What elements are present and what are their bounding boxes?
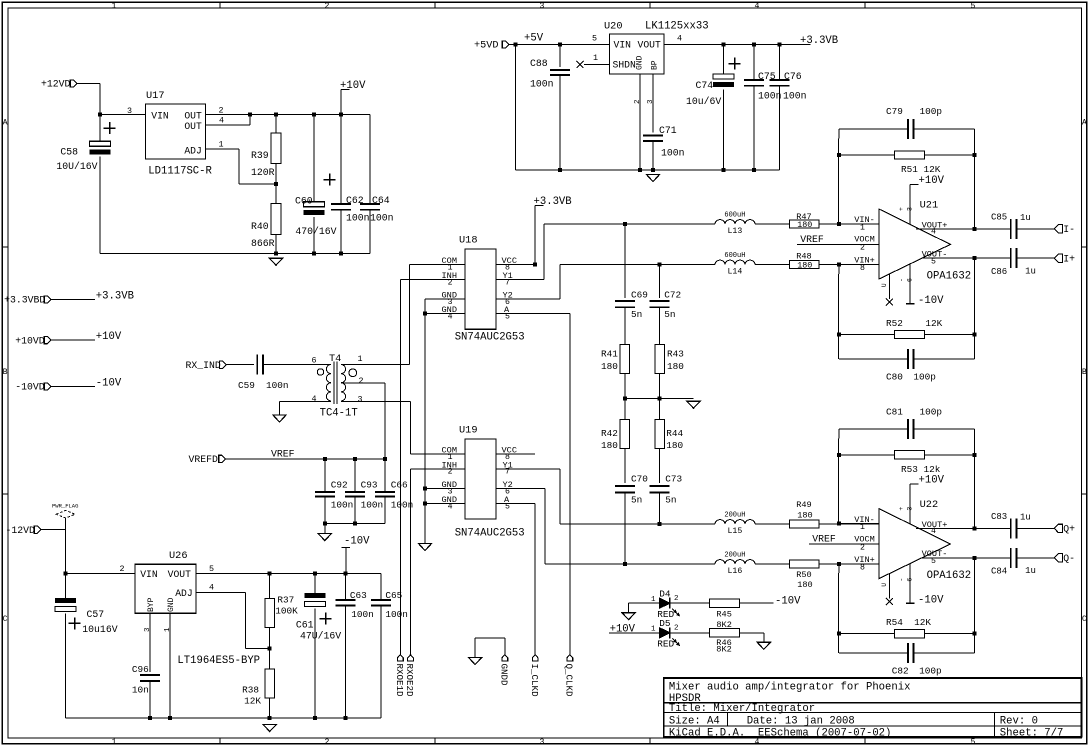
- svg-text:Q-: Q-: [1063, 553, 1075, 564]
- svg-text:C59: C59: [238, 380, 255, 391]
- svg-text:C79: C79: [886, 106, 903, 117]
- svg-text:SN74AUC2G53: SN74AUC2G53: [455, 332, 525, 344]
- svg-text:U22: U22: [920, 499, 939, 511]
- svg-text:1: 1: [164, 627, 172, 632]
- svg-text:GND: GND: [636, 55, 645, 70]
- svg-text:-10V: -10V: [918, 595, 944, 607]
- svg-text:3: 3: [907, 207, 914, 211]
- svg-text:GND: GND: [167, 597, 176, 612]
- svg-text:1: 1: [593, 53, 598, 63]
- svg-text:1: 1: [860, 223, 865, 232]
- svg-text:R45: R45: [716, 609, 731, 619]
- svg-text:-10V: -10V: [918, 295, 944, 307]
- svg-text:U19: U19: [459, 425, 478, 437]
- svg-text:U: U: [881, 283, 888, 287]
- svg-text:C61: C61: [296, 620, 314, 631]
- svg-text:4: 4: [312, 394, 317, 404]
- svg-text:2: 2: [325, 2, 330, 11]
- svg-text:200uH: 200uH: [724, 552, 745, 560]
- svg-text:+3.3VB: +3.3VB: [800, 35, 838, 47]
- svg-text:12K: 12K: [244, 695, 261, 706]
- svg-text:RXOE1D: RXOE1D: [394, 664, 405, 698]
- svg-text:100p: 100p: [920, 406, 943, 417]
- svg-text:KiCad E.D.A. EESchema (2007-0: KiCad E.D.A. EESchema (2007-07-02): [669, 727, 892, 739]
- svg-text:5: 5: [209, 564, 214, 574]
- svg-text:C57: C57: [87, 609, 105, 620]
- svg-text:C64: C64: [372, 195, 390, 206]
- svg-text:D5: D5: [659, 618, 671, 629]
- svg-text:R42: R42: [601, 428, 618, 439]
- svg-text:R39: R39: [251, 150, 269, 161]
- svg-text:T4: T4: [329, 353, 341, 365]
- svg-text:180: 180: [601, 361, 618, 372]
- svg-text:Date: 13 jan 2008: Date: 13 jan 2008: [747, 715, 855, 727]
- svg-text:VREFD: VREFD: [189, 454, 219, 465]
- svg-text:LD1117SC-R: LD1117SC-R: [148, 165, 212, 177]
- svg-text:+10V: +10V: [610, 623, 636, 635]
- svg-text:L13: L13: [728, 227, 743, 236]
- svg-text:5n: 5n: [631, 495, 642, 506]
- svg-text:5: 5: [505, 502, 510, 511]
- svg-text:2: 2: [120, 564, 125, 574]
- svg-text:6: 6: [907, 278, 914, 282]
- svg-text:2: 2: [359, 376, 364, 386]
- svg-text:1: 1: [651, 596, 656, 604]
- svg-text:C92: C92: [331, 479, 348, 490]
- svg-text:C: C: [1082, 615, 1087, 624]
- svg-text:VREF: VREF: [271, 449, 295, 460]
- svg-text:1u: 1u: [1025, 267, 1036, 277]
- svg-text:+10V: +10V: [96, 331, 122, 343]
- svg-text:U21: U21: [920, 199, 939, 211]
- svg-text:180: 180: [667, 361, 684, 372]
- svg-text:100p: 100p: [920, 106, 943, 117]
- svg-text:C76: C76: [784, 71, 802, 82]
- svg-text:1: 1: [651, 626, 656, 634]
- svg-text:3: 3: [647, 99, 655, 104]
- svg-text:2: 2: [325, 738, 330, 746]
- svg-text:VREF: VREF: [800, 234, 824, 245]
- svg-text:R38: R38: [242, 684, 259, 695]
- svg-text:100K: 100K: [275, 605, 298, 616]
- svg-text:C73: C73: [665, 473, 682, 484]
- svg-text:Title: Mixer/Integrator: Title: Mixer/Integrator: [669, 703, 815, 715]
- svg-text:4: 4: [448, 502, 453, 511]
- svg-text:1: 1: [112, 2, 117, 11]
- svg-text:3: 3: [144, 627, 152, 632]
- svg-text:4: 4: [209, 583, 214, 593]
- svg-text:R51 12K: R51 12K: [901, 164, 941, 175]
- svg-text:3: 3: [540, 738, 545, 746]
- svg-text:BP: BP: [651, 60, 660, 70]
- svg-text:2: 2: [860, 244, 865, 253]
- svg-text:100n: 100n: [266, 380, 289, 391]
- svg-text:180: 180: [797, 580, 812, 590]
- svg-text:R37: R37: [277, 594, 294, 605]
- svg-text:5n: 5n: [631, 309, 642, 320]
- svg-text:C83: C83: [991, 512, 1007, 522]
- svg-text:+5V: +5V: [524, 33, 544, 45]
- svg-text:U18: U18: [459, 235, 478, 247]
- svg-text:1u: 1u: [1025, 566, 1036, 576]
- svg-text:100n: 100n: [346, 213, 370, 224]
- svg-text:3: 3: [358, 395, 363, 405]
- svg-text:VIN: VIN: [614, 40, 632, 51]
- svg-text:C69: C69: [631, 289, 648, 300]
- svg-text:RXOE2D: RXOE2D: [404, 664, 415, 698]
- svg-text:C81: C81: [886, 406, 903, 417]
- svg-text:+10V: +10V: [919, 475, 945, 487]
- svg-text:I_CLKD: I_CLKD: [529, 664, 540, 698]
- svg-text:C72: C72: [664, 289, 681, 300]
- svg-text:Q+: Q+: [1063, 524, 1075, 535]
- svg-text:47U/16V: 47U/16V: [300, 631, 341, 642]
- svg-text:1u: 1u: [1020, 213, 1031, 223]
- svg-text:U: U: [881, 583, 888, 587]
- svg-text:C70: C70: [631, 473, 648, 484]
- svg-text:RX_IND: RX_IND: [186, 360, 221, 371]
- svg-text:120R: 120R: [251, 167, 275, 178]
- svg-text:5n: 5n: [664, 309, 675, 320]
- svg-text:SHDN: SHDN: [613, 59, 636, 70]
- svg-text:Sheet: 7/7: Sheet: 7/7: [1000, 727, 1064, 739]
- svg-text:4: 4: [755, 2, 760, 11]
- svg-text:180: 180: [666, 440, 683, 451]
- svg-text:SN74AUC2G53: SN74AUC2G53: [455, 528, 525, 540]
- svg-text:I-: I-: [1063, 224, 1075, 235]
- svg-text:+: +: [898, 507, 905, 511]
- svg-text:3: 3: [540, 2, 545, 11]
- svg-text:C60: C60: [295, 195, 313, 206]
- svg-text:7: 7: [505, 468, 510, 477]
- svg-text:L14: L14: [728, 268, 743, 277]
- svg-text:10U/16V: 10U/16V: [56, 161, 97, 172]
- svg-text:100n: 100n: [530, 79, 554, 90]
- svg-text:GNDD: GNDD: [498, 664, 509, 687]
- svg-text:2: 2: [448, 468, 453, 477]
- svg-text:-12VD: -12VD: [6, 525, 36, 536]
- svg-text:1u: 1u: [1020, 512, 1031, 522]
- svg-text:+: +: [898, 207, 905, 211]
- svg-text:+3.3VB: +3.3VB: [534, 196, 572, 208]
- svg-text:10u/6V: 10u/6V: [686, 96, 721, 107]
- svg-text:100n: 100n: [385, 609, 408, 620]
- svg-text:100n: 100n: [661, 147, 685, 158]
- svg-text:C75: C75: [758, 71, 776, 82]
- svg-text:-: -: [898, 278, 905, 282]
- svg-text:C63: C63: [350, 590, 367, 601]
- svg-text:3: 3: [127, 106, 132, 116]
- svg-text:4: 4: [677, 34, 682, 44]
- svg-text:8: 8: [860, 563, 865, 572]
- svg-text:OUT: OUT: [184, 110, 202, 121]
- svg-text:A: A: [1082, 119, 1087, 128]
- svg-text:200uH: 200uH: [724, 512, 745, 520]
- svg-text:100n: 100n: [370, 213, 394, 224]
- svg-text:C74: C74: [696, 80, 714, 91]
- svg-text:4: 4: [448, 312, 453, 321]
- svg-text:6: 6: [907, 578, 914, 582]
- svg-text:C: C: [3, 615, 8, 624]
- svg-text:RED: RED: [657, 639, 674, 650]
- svg-text:100n: 100n: [391, 500, 414, 511]
- svg-text:1: 1: [112, 738, 117, 746]
- svg-text:7: 7: [505, 278, 510, 287]
- svg-text:C84: C84: [991, 567, 1007, 577]
- svg-text:Size: A4: Size: A4: [669, 715, 720, 727]
- svg-text:C85: C85: [991, 212, 1007, 222]
- svg-text:100n: 100n: [361, 500, 384, 511]
- svg-text:C65: C65: [385, 590, 402, 601]
- svg-text:OPA1632: OPA1632: [927, 570, 972, 582]
- svg-text:2: 2: [674, 625, 679, 633]
- svg-text:8: 8: [860, 264, 865, 273]
- svg-text:B: B: [1082, 368, 1087, 377]
- svg-text:5: 5: [505, 312, 510, 321]
- svg-text:-10V: -10V: [775, 595, 801, 607]
- svg-text:5n: 5n: [665, 495, 676, 506]
- svg-text:2: 2: [448, 278, 453, 287]
- svg-text:R40: R40: [251, 221, 269, 232]
- svg-text:180: 180: [797, 261, 812, 271]
- svg-text:180: 180: [601, 440, 618, 451]
- svg-text:C88: C88: [530, 58, 548, 69]
- svg-text:+12VD: +12VD: [41, 79, 71, 90]
- svg-text:Rev: 0: Rev: 0: [1000, 715, 1038, 727]
- svg-text:VIN: VIN: [140, 569, 158, 580]
- svg-text:100n: 100n: [331, 500, 354, 511]
- svg-text:470/16V: 470/16V: [295, 226, 336, 237]
- svg-text:-10V: -10V: [96, 377, 122, 389]
- svg-text:C71: C71: [659, 125, 677, 136]
- svg-text:10u16V: 10u16V: [82, 624, 117, 635]
- svg-text:C93: C93: [361, 479, 378, 490]
- svg-text:2: 2: [634, 99, 642, 104]
- svg-text:U26: U26: [169, 550, 188, 562]
- svg-text:C80: C80: [886, 371, 903, 382]
- svg-text:I+: I+: [1063, 254, 1075, 265]
- svg-text:1: 1: [358, 354, 363, 364]
- svg-text:600uH: 600uH: [724, 212, 745, 220]
- svg-text:TC4-1T: TC4-1T: [320, 408, 358, 420]
- svg-text:10n: 10n: [132, 684, 149, 695]
- svg-text:180: 180: [797, 220, 812, 230]
- svg-text:ADJ: ADJ: [184, 146, 201, 157]
- svg-text:+3.3VB: +3.3VB: [96, 290, 134, 302]
- svg-text:Mixer audio amp/integrator for: Mixer audio amp/integrator for Phoenix: [669, 681, 911, 693]
- svg-text:180: 180: [797, 510, 812, 520]
- svg-text:100n: 100n: [783, 90, 807, 101]
- svg-text:C58: C58: [60, 146, 78, 157]
- svg-text:-10VD: -10VD: [15, 382, 45, 393]
- svg-text:-: -: [898, 578, 905, 582]
- svg-text:OPA1632: OPA1632: [927, 270, 972, 282]
- svg-text:A: A: [3, 119, 8, 128]
- svg-text:2: 2: [860, 543, 865, 552]
- svg-text:L16: L16: [728, 567, 743, 576]
- svg-text:C86: C86: [991, 267, 1007, 277]
- svg-text:5: 5: [971, 738, 976, 746]
- svg-text:+10V: +10V: [340, 80, 366, 92]
- svg-text:VREF: VREF: [812, 534, 836, 545]
- svg-text:U20: U20: [604, 20, 623, 32]
- svg-text:6: 6: [312, 356, 317, 366]
- svg-text:VOUT: VOUT: [638, 40, 661, 51]
- svg-text:5: 5: [971, 2, 976, 11]
- svg-text:100n: 100n: [758, 90, 782, 101]
- svg-text:+10V: +10V: [919, 175, 945, 187]
- svg-text:100n: 100n: [351, 609, 374, 620]
- svg-text:R49: R49: [796, 500, 811, 510]
- svg-text:R41: R41: [601, 349, 618, 360]
- svg-text:LT1964ES5-BYP: LT1964ES5-BYP: [177, 655, 260, 667]
- svg-text:1: 1: [219, 140, 224, 150]
- svg-text:100p: 100p: [919, 666, 942, 677]
- svg-text:C96: C96: [132, 664, 149, 675]
- svg-text:2: 2: [219, 106, 224, 116]
- svg-text:8K2: 8K2: [716, 645, 731, 655]
- svg-text:5: 5: [592, 34, 597, 44]
- svg-text:LK1125xx33: LK1125xx33: [645, 20, 709, 32]
- svg-text:R53 12k: R53 12k: [901, 464, 941, 475]
- svg-text:R52 12K: R52 12K: [886, 318, 943, 329]
- svg-text:C66: C66: [391, 479, 408, 490]
- svg-text:R43: R43: [667, 349, 684, 360]
- svg-text:100p: 100p: [913, 371, 936, 382]
- svg-text:PWR_FLAG: PWR_FLAG: [52, 503, 78, 510]
- svg-text:U17: U17: [146, 90, 165, 102]
- svg-text:+3.3VBD: +3.3VBD: [4, 295, 45, 306]
- svg-text:+5VD: +5VD: [474, 41, 498, 52]
- svg-text:BYP: BYP: [147, 597, 156, 612]
- svg-text:+10VD: +10VD: [15, 335, 45, 346]
- svg-text:R44: R44: [666, 428, 683, 439]
- svg-text:R50: R50: [796, 570, 811, 580]
- svg-text:C82: C82: [892, 666, 909, 677]
- svg-text:R54 12K: R54 12K: [886, 617, 931, 628]
- svg-text:600uH: 600uH: [724, 252, 745, 260]
- svg-text:OUT: OUT: [184, 121, 202, 132]
- svg-text:VOUT: VOUT: [168, 569, 191, 580]
- svg-text:VIN: VIN: [151, 110, 169, 121]
- svg-text:B: B: [3, 368, 8, 377]
- svg-text:2: 2: [674, 595, 679, 603]
- svg-text:ADJ: ADJ: [175, 588, 192, 599]
- svg-text:-10V: -10V: [344, 536, 370, 548]
- svg-text:L15: L15: [728, 527, 743, 536]
- svg-text:Q_CLKD: Q_CLKD: [563, 664, 574, 698]
- svg-text:3: 3: [907, 507, 914, 511]
- svg-text:4: 4: [219, 116, 224, 126]
- svg-text:866R: 866R: [251, 238, 275, 249]
- svg-text:D4: D4: [659, 589, 671, 600]
